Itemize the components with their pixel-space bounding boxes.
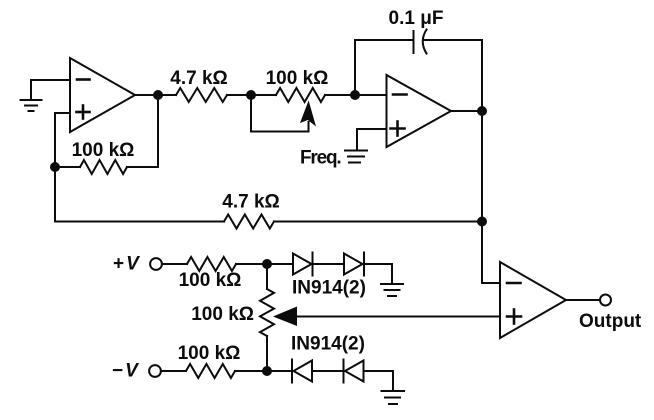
wire U1 inverting input to ground bbox=[31, 80, 70, 100]
svg-text:4.7 kΩ: 4.7 kΩ bbox=[170, 68, 228, 89]
diode D4 IN914 (reversed) bbox=[344, 360, 364, 383]
node C bbox=[246, 90, 256, 100]
svg-text:100 kΩ: 100 kΩ bbox=[178, 343, 241, 364]
op-amp U2 bbox=[387, 75, 452, 147]
resistor R4 4.7 kOhm bbox=[224, 215, 274, 229]
wire pot R6 to node H bbox=[266, 336, 268, 371]
svg-text:4.7 kΩ: 4.7 kΩ bbox=[222, 192, 280, 213]
wire feedback row (node A to node F) bbox=[55, 221, 224, 223]
wire D2 to ground bbox=[364, 264, 392, 284]
node H bbox=[262, 366, 272, 376]
wire pot R6 wiper to U3 noninverting input bbox=[295, 316, 500, 318]
terminal -V bbox=[149, 365, 161, 377]
node E bbox=[477, 106, 487, 116]
resistor R7 100 kOhm bbox=[186, 364, 235, 378]
diode D2 IN914 bbox=[344, 253, 364, 276]
svg-text:Output: Output bbox=[579, 311, 642, 332]
svg-text:100 kΩ: 100 kΩ bbox=[72, 140, 135, 161]
wire U3 output to output terminal bbox=[566, 299, 599, 301]
pot R3 wiper arrow bbox=[300, 101, 316, 127]
node G bbox=[262, 259, 272, 269]
resistor R1 4.7 kOhm bbox=[176, 88, 227, 102]
ground (U2 noninverting input) bbox=[345, 151, 367, 163]
wire R2 right end bbox=[127, 166, 158, 168]
node B bbox=[153, 90, 163, 100]
wire R4 to node F bbox=[274, 221, 482, 223]
wire -V terminal to R7 bbox=[161, 370, 186, 372]
node D bbox=[350, 90, 360, 100]
ground (lower diodes) bbox=[382, 391, 405, 404]
op-amp U1 bbox=[70, 58, 135, 132]
wire node D up to capacitor C1 bbox=[355, 40, 414, 95]
svg-text:100 kΩ: 100 kΩ bbox=[266, 68, 329, 89]
wire node A down to feedback row bbox=[54, 167, 56, 222]
wire node G down to pot R6 bbox=[266, 264, 268, 289]
terminal +V bbox=[150, 258, 162, 270]
wire R5 to node G bbox=[236, 263, 267, 265]
diode D1 IN914 bbox=[293, 253, 313, 276]
ground (upper diodes) bbox=[381, 284, 403, 296]
pot R6 wiper arrow bbox=[273, 307, 297, 327]
wire capacitor C1 to right vertical bbox=[424, 39, 482, 41]
output terminal bbox=[600, 295, 611, 306]
wire node D to U2 inverting input bbox=[355, 94, 387, 96]
svg-text:IN914(2): IN914(2) bbox=[292, 278, 366, 299]
wire +V terminal to R5 bbox=[163, 263, 187, 265]
svg-text:100 kΩ: 100 kΩ bbox=[179, 270, 242, 291]
svg-text:+V: +V bbox=[113, 254, 140, 275]
wire R1 to node C bbox=[227, 94, 276, 96]
ground (U1 inverting input) bbox=[21, 100, 42, 111]
wire node F down to U3 inverting input bbox=[482, 282, 500, 284]
svg-text:0.1 μF: 0.1 μF bbox=[389, 8, 444, 29]
wire D4 to ground bbox=[364, 371, 394, 391]
wire node G to diode D1 bbox=[267, 263, 293, 265]
wire R2 to node A bbox=[55, 166, 80, 168]
wire node B down to resistor R2 bbox=[157, 95, 159, 167]
op-amp U3 bbox=[500, 262, 566, 338]
wire D1 to D2 bbox=[313, 263, 345, 265]
diode D3 IN914 (reversed) bbox=[292, 360, 312, 383]
svg-text:−V: −V bbox=[112, 361, 139, 382]
wire right vertical (U2 output / feedback bus) bbox=[481, 40, 483, 283]
wire R7 to node H bbox=[235, 370, 267, 372]
svg-text:100 kΩ: 100 kΩ bbox=[191, 304, 254, 325]
wire U1 output to node B bbox=[135, 94, 176, 96]
resistor R5 100 kOhm bbox=[187, 257, 236, 271]
wire pot R3 to node D bbox=[325, 94, 387, 96]
svg-text:IN914(2): IN914(2) bbox=[291, 334, 365, 355]
wire D3 to D4 bbox=[312, 370, 344, 372]
capacitor C1 0.1 uF bbox=[414, 30, 427, 54]
potentiometer R3 100 kOhm (frequency) bbox=[276, 88, 325, 102]
node F bbox=[477, 217, 487, 227]
resistor R2 100 kOhm (U1 feedback) bbox=[80, 160, 127, 174]
wire node C to pot wiper arrow bbox=[251, 95, 309, 132]
wire U2 output to node E bbox=[451, 110, 482, 112]
svg-text:Freq.: Freq. bbox=[300, 148, 340, 169]
wire U2 noninverting input to ground bbox=[357, 129, 387, 149]
potentiometer R6 100 kOhm (vertical) bbox=[260, 289, 274, 336]
node A bbox=[50, 162, 60, 172]
wire U1 noninverting input down to node A bbox=[55, 113, 70, 167]
wire node H to diode D3 bbox=[267, 370, 292, 372]
